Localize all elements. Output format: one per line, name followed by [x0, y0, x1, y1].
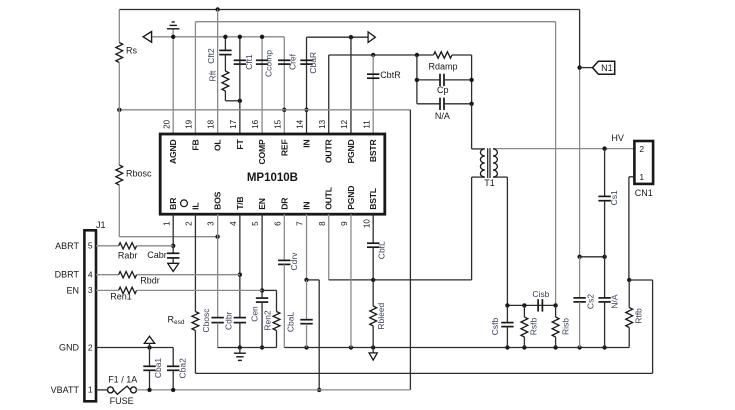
svg-text:CN1: CN1 [635, 188, 653, 198]
svg-text:Rbdr: Rbdr [140, 275, 160, 285]
svg-text:Ren1: Ren1 [110, 292, 132, 302]
svg-text:PGND: PGND [346, 140, 356, 164]
svg-text:13: 13 [318, 119, 327, 129]
svg-text:REF: REF [279, 140, 289, 157]
svg-text:Cba1: Cba1 [153, 358, 163, 379]
svg-text:3: 3 [88, 285, 93, 295]
svg-text:IN: IN [302, 140, 312, 148]
svg-text:7: 7 [296, 221, 305, 226]
svg-text:Cft2: Cft2 [206, 48, 216, 64]
svg-text:Cft1: Cft1 [244, 54, 254, 70]
svg-text:FUSE: FUSE [110, 396, 134, 406]
svg-text:Cba2: Cba2 [178, 358, 188, 379]
svg-text:BSTR: BSTR [368, 139, 378, 163]
svg-text:DBRT: DBRT [55, 270, 80, 280]
svg-text:BR: BR [168, 197, 178, 210]
svg-text:N1: N1 [601, 63, 613, 73]
svg-text:Rbleed: Rbleed [376, 302, 386, 329]
svg-text:Rsfb: Rsfb [529, 317, 539, 335]
svg-text:N/A: N/A [610, 294, 620, 309]
svg-text:Cdrv: Cdrv [289, 252, 299, 271]
svg-text:Cs1: Cs1 [609, 190, 619, 205]
svg-text:4: 4 [88, 270, 93, 280]
svg-text:Risb: Risb [561, 318, 571, 335]
svg-text:FB: FB [190, 140, 200, 151]
svg-text:Cdbr: Cdbr [224, 311, 234, 330]
svg-text:GND: GND [59, 343, 80, 353]
svg-text:BOS: BOS [213, 191, 223, 209]
svg-text:12: 12 [340, 119, 349, 129]
svg-text:CbaR: CbaR [308, 52, 318, 74]
svg-text:Cen: Cen [250, 306, 260, 322]
svg-text:COMP: COMP [257, 139, 267, 164]
svg-text:AGND: AGND [168, 140, 178, 165]
svg-text:Ren2: Ren2 [263, 310, 273, 331]
svg-text:CbtR: CbtR [380, 70, 401, 80]
svg-text:Cbosc: Cbosc [201, 308, 211, 333]
svg-text:2: 2 [88, 342, 93, 352]
svg-text:Cs2: Cs2 [586, 294, 596, 309]
svg-text:Rabr: Rabr [118, 250, 138, 260]
svg-text:PGND: PGND [346, 186, 356, 210]
svg-text:EN: EN [66, 285, 79, 295]
svg-text:6: 6 [273, 221, 282, 226]
svg-text:5: 5 [251, 221, 260, 226]
svg-text:Ccomp: Ccomp [264, 50, 274, 77]
svg-text:OUTL: OUTL [324, 187, 334, 210]
svg-text:Rs: Rs [126, 46, 137, 56]
svg-text:8: 8 [318, 221, 327, 226]
svg-text:OL: OL [213, 140, 223, 152]
svg-text:IN: IN [302, 202, 312, 210]
svg-text:DR: DR [279, 197, 289, 210]
svg-text:ABRT: ABRT [55, 241, 79, 251]
svg-text:J1: J1 [96, 220, 106, 230]
svg-text:1: 1 [639, 172, 644, 182]
svg-text:OUTR: OUTR [324, 139, 334, 164]
svg-text:20: 20 [162, 119, 171, 129]
svg-text:N/A: N/A [435, 111, 450, 121]
svg-text:18: 18 [207, 119, 216, 129]
svg-text:Rbosc: Rbosc [126, 168, 152, 178]
svg-text:Cp: Cp [437, 85, 449, 95]
svg-text:F1 / 1A: F1 / 1A [108, 375, 137, 385]
svg-text:Rft: Rft [208, 70, 218, 82]
svg-text:T/B: T/B [235, 197, 245, 210]
svg-text:17: 17 [229, 119, 238, 129]
svg-text:11: 11 [362, 120, 371, 129]
svg-text:Rtfb: Rtfb [633, 308, 643, 324]
svg-text:CbtL: CbtL [376, 241, 386, 259]
svg-text:14: 14 [296, 119, 305, 129]
svg-text:2: 2 [185, 221, 194, 226]
svg-text:4: 4 [229, 221, 238, 226]
svg-text:IL: IL [190, 203, 200, 210]
svg-text:3: 3 [207, 221, 216, 226]
svg-text:2: 2 [639, 144, 644, 154]
svg-text:HV: HV [611, 133, 624, 143]
svg-text:MP1010B: MP1010B [247, 172, 298, 184]
svg-text:19: 19 [185, 119, 194, 129]
svg-text:Cisb: Cisb [532, 289, 549, 299]
svg-text:BSTL: BSTL [368, 188, 378, 210]
svg-text:CbaL: CbaL [285, 312, 295, 333]
svg-text:1: 1 [162, 221, 171, 226]
svg-text:Rdamp: Rdamp [428, 62, 457, 72]
svg-text:5: 5 [88, 241, 93, 251]
svg-text:FT: FT [235, 139, 245, 150]
svg-text:10: 10 [362, 219, 371, 229]
svg-text:T1: T1 [484, 178, 495, 188]
svg-text:16: 16 [251, 119, 260, 129]
svg-text:EN: EN [257, 198, 267, 210]
svg-text:15: 15 [273, 119, 282, 129]
svg-text:1: 1 [88, 385, 93, 395]
svg-text:VBATT: VBATT [51, 385, 80, 395]
svg-text:9: 9 [340, 221, 349, 226]
svg-text:Cref: Cref [288, 53, 298, 70]
svg-text:Cabr: Cabr [147, 250, 167, 260]
svg-text:Csfb: Csfb [490, 317, 500, 335]
